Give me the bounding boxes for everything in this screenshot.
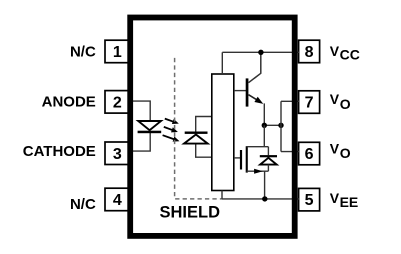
wire photodiode cathode stub bbox=[196, 117, 212, 132]
amplifier block bbox=[212, 74, 234, 191]
pin box 1 bbox=[105, 40, 129, 63]
junction dot node left bbox=[262, 123, 267, 128]
pin box 6 bbox=[299, 142, 320, 165]
wire photodiode anode stub bbox=[196, 144, 212, 157]
light arrow 1 bbox=[165, 119, 179, 124]
mosfet Q2 channel bar bbox=[246, 146, 248, 172]
diode D2 triangle bbox=[260, 158, 277, 165]
LED D1 cathode bar bbox=[138, 131, 162, 134]
photodiode cathode bar bbox=[185, 132, 208, 134]
package outline bbox=[130, 18, 295, 236]
label VO pin6 bbox=[330, 141, 351, 162]
svg-text:O: O bbox=[340, 96, 351, 112]
wire source down to VEE bbox=[264, 171, 266, 199]
wire anode from pin2 to LED bbox=[131, 101, 150, 120]
wire to pin6 bbox=[281, 151, 299, 153]
svg-text:4: 4 bbox=[113, 192, 122, 209]
wire emitter down to node bbox=[263, 103, 265, 125]
pin box 8 bbox=[299, 40, 320, 63]
wire VCC rail to pin8 bbox=[222, 51, 299, 53]
LED D1 triangle bbox=[138, 121, 161, 130]
mosfet Q2 drain wire bbox=[247, 146, 269, 148]
svg-text:V: V bbox=[330, 190, 340, 206]
junction dot VEE bbox=[262, 196, 267, 201]
label VO pin7 bbox=[330, 91, 351, 112]
diode D2 cathode bar bbox=[260, 155, 277, 157]
label VEE pin5 bbox=[330, 190, 358, 210]
pin box 2 bbox=[105, 91, 129, 114]
transistor Q1 emitter arrowhead bbox=[254, 97, 263, 104]
pin box 5 bbox=[299, 188, 320, 211]
transistor Q1 collector bbox=[249, 52, 261, 82]
transistor Q1 emitter bbox=[249, 95, 258, 101]
shield dashed line bbox=[175, 58, 222, 199]
svg-text:CATHODE: CATHODE bbox=[23, 143, 96, 160]
photodiode triangle bbox=[184, 135, 208, 144]
svg-text:3: 3 bbox=[113, 146, 122, 163]
wire amp bottom to VEE rail bbox=[221, 191, 223, 199]
svg-text:5: 5 bbox=[305, 192, 314, 209]
svg-text:1: 1 bbox=[113, 44, 122, 61]
pin box 7 bbox=[299, 91, 320, 114]
wire node horizontal bbox=[264, 124, 281, 126]
mosfet Q2 source wire bbox=[247, 170, 269, 172]
svg-text:8: 8 bbox=[305, 44, 314, 61]
diode D2 top wire bbox=[267, 147, 269, 155]
mosfet Q2 gate bar bbox=[240, 150, 242, 170]
svg-text:7: 7 bbox=[305, 95, 314, 112]
svg-text:EE: EE bbox=[340, 194, 359, 210]
wire gate from amp bbox=[234, 157, 240, 159]
pin box 3 bbox=[105, 142, 129, 165]
svg-text:N/C: N/C bbox=[70, 44, 96, 61]
wire base from amp bbox=[234, 90, 246, 92]
svg-text:O: O bbox=[340, 145, 351, 161]
transistor Q1 base bar bbox=[246, 78, 249, 106]
svg-text:CC: CC bbox=[340, 47, 360, 63]
wire amp top to VCC rail bbox=[221, 52, 223, 74]
wire VEE rail to pin5 bbox=[222, 198, 299, 200]
wire output riser pins 7-6 bbox=[280, 101, 282, 151]
pin box 4 bbox=[105, 188, 129, 211]
junction dot node right bbox=[278, 123, 283, 128]
light arrow 2 bbox=[164, 127, 178, 132]
diode D2 bottom wire bbox=[267, 165, 269, 172]
svg-text:N/C: N/C bbox=[70, 196, 96, 213]
wire node down to drain bbox=[263, 125, 265, 146]
svg-text:V: V bbox=[330, 43, 340, 59]
wire to pin7 bbox=[281, 100, 299, 102]
svg-text:2: 2 bbox=[113, 94, 122, 111]
wire cathode from LED to pin3 bbox=[131, 133, 150, 151]
svg-text:V: V bbox=[330, 141, 340, 157]
svg-text:V: V bbox=[330, 91, 340, 107]
svg-text:6: 6 bbox=[305, 146, 314, 163]
svg-text:SHIELD: SHIELD bbox=[160, 204, 221, 222]
label VCC pin8 bbox=[330, 43, 360, 62]
light arrow 3 bbox=[163, 135, 180, 141]
junction dot collector VCC bbox=[258, 50, 263, 55]
mosfet Q2 source arrowhead bbox=[254, 169, 263, 174]
svg-text:ANODE: ANODE bbox=[42, 94, 96, 111]
